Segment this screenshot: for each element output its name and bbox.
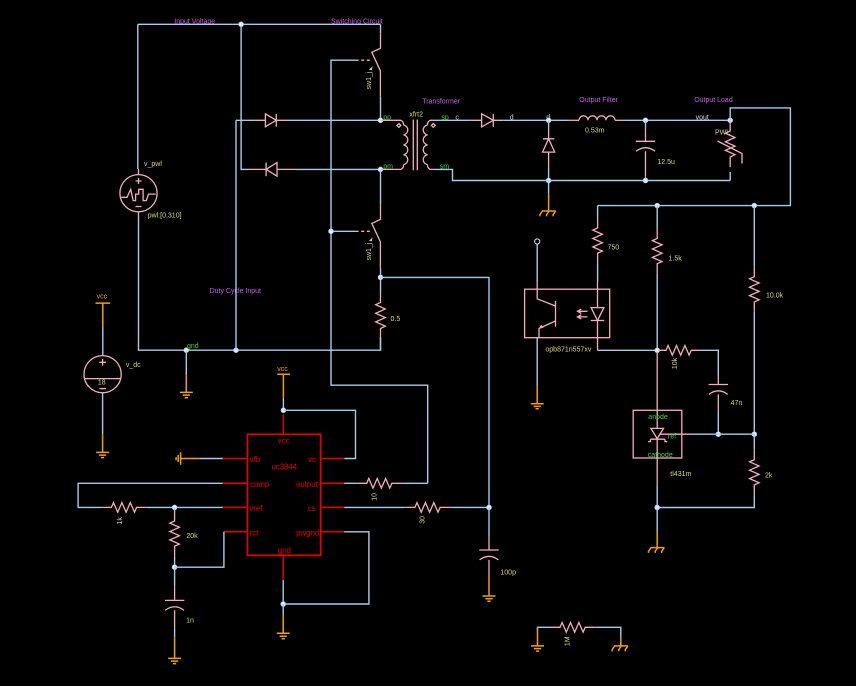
bottom snubber wire right xyxy=(595,627,621,636)
resistor R 0.5 current sense xyxy=(376,277,386,350)
label pp xyxy=(383,115,391,122)
label c xyxy=(455,115,459,122)
node pm junction xyxy=(378,167,383,172)
wire gnd pin to junction xyxy=(282,580,284,604)
svg-text:tl431m: tl431m xyxy=(670,471,691,478)
svg-text:47n: 47n xyxy=(731,400,743,407)
svg-text:cathode: cathode xyxy=(648,452,673,459)
vcc supply symbol at v_dc xyxy=(96,294,111,356)
svg-text:comp: comp xyxy=(250,480,270,489)
node junction sw2 control xyxy=(329,229,334,234)
optocoupler coupling arrows xyxy=(578,309,588,319)
wire top input rail xyxy=(138,23,381,25)
ground symbol snubber right (rake style) xyxy=(612,637,628,652)
comment: Duty Cycle Input title xyxy=(210,288,261,295)
transformer xfrt2 primary winding xyxy=(381,120,408,169)
resistor R 10 gate drive xyxy=(357,479,402,489)
svg-text:anode: anode xyxy=(648,414,668,421)
optocoupler opb871n557xv box xyxy=(525,289,610,338)
node junction freewheel anode on return rail xyxy=(546,178,551,183)
transformer core xyxy=(413,120,417,171)
svg-text:pwgnd: pwgnd xyxy=(296,528,319,537)
resistor R 1k comp xyxy=(101,503,146,513)
label 47n xyxy=(731,400,743,407)
label ref xyxy=(668,434,676,441)
vcc supply symbol at uc3844 xyxy=(277,366,290,410)
resistor R 2k xyxy=(657,434,759,507)
wire D2 left segment xyxy=(297,168,381,170)
label anode xyxy=(648,414,668,421)
ground symbol sideways at vfb xyxy=(176,452,223,465)
wire v_pwl minus lead to gnd rail xyxy=(139,218,381,351)
resistor R 30 cs filter xyxy=(405,503,450,513)
ground symbol tl431 (rake style) xyxy=(649,508,665,553)
label 750 xyxy=(608,244,620,251)
wire rct net xyxy=(175,532,224,567)
comment: Switching Circuit title xyxy=(331,19,383,26)
wire comp loop xyxy=(78,483,223,507)
switch SW1 top xyxy=(356,24,381,120)
comment: Transformer title xyxy=(422,99,461,106)
diode freewheel at node d xyxy=(543,120,555,180)
capacitor C 100p xyxy=(479,507,498,576)
node junction sw2 bottom / cs tap xyxy=(378,275,383,280)
svg-text:vcc: vcc xyxy=(278,436,290,445)
label sm xyxy=(440,164,450,171)
uc3844 pin stubs xyxy=(223,414,344,580)
svg-text:vfb: vfb xyxy=(250,455,261,464)
svg-text:1k: 1k xyxy=(117,517,124,525)
ground symbol secondary return (rake style) xyxy=(540,181,556,217)
optocoupler LED xyxy=(591,282,605,351)
node junction tl431 cathode xyxy=(655,505,660,510)
wire v+ drop to clamp diode D2 cathode xyxy=(241,24,247,169)
diode D1 clamp to pp xyxy=(255,114,286,127)
svg-text:sw1_j: sw1_j xyxy=(366,242,373,260)
svg-text:18: 18 xyxy=(98,380,106,387)
inductor L 0.53m xyxy=(569,116,625,121)
wire secondary minus rail xyxy=(434,169,731,180)
node junction 10.0k top xyxy=(752,203,757,208)
node junction rct node xyxy=(172,565,177,570)
label v_pwl xyxy=(144,161,162,168)
voltage source v_pwl xyxy=(120,169,157,218)
wire sp to output diode xyxy=(434,119,472,121)
resistor R 20k xyxy=(170,507,180,567)
bottom snubber wire left xyxy=(538,627,551,630)
label d at junction xyxy=(546,114,550,121)
svg-text:vcc: vcc xyxy=(277,366,288,373)
label 1.5k xyxy=(669,255,683,262)
label pm xyxy=(383,164,393,171)
transformer polarity dot primary xyxy=(397,124,401,128)
wire clamp diode D1 anode drop xyxy=(235,120,237,350)
svg-text:opb871n557xv: opb871n557xv xyxy=(545,346,591,353)
wire vout upper loop to feedback rail xyxy=(598,108,791,206)
svg-text:1.5k: 1.5k xyxy=(669,255,683,262)
diode D2 clamp pm to v+ xyxy=(247,163,297,177)
label 1k rotated xyxy=(117,517,124,525)
node junction cs 100p xyxy=(487,505,492,510)
svg-text:pwl:[0,310]: pwl:[0,310] xyxy=(148,213,182,220)
tl431 symbol xyxy=(648,351,690,486)
svg-text:v_pwl: v_pwl xyxy=(144,161,162,168)
ground symbol snubber left xyxy=(531,627,544,651)
svg-text:0.5: 0.5 xyxy=(391,316,401,323)
ground symbol uc3844 gnd xyxy=(277,604,290,639)
resistor R 10k to ref filter xyxy=(659,346,719,377)
label opb871n557xv xyxy=(545,346,591,353)
label 20k xyxy=(186,533,198,540)
label 1n xyxy=(186,618,194,625)
svg-text:100p: 100p xyxy=(500,570,516,577)
label 0.5 xyxy=(391,316,401,323)
svg-text:1M: 1M xyxy=(565,636,572,646)
label gnd net xyxy=(187,343,199,350)
svg-text:1n: 1n xyxy=(186,618,194,625)
wire gate resistor to control vertical xyxy=(402,482,428,484)
svg-text:uc3844: uc3844 xyxy=(272,463,298,472)
svg-text:cs: cs xyxy=(308,504,316,513)
label sw1_j rotated second xyxy=(366,238,373,261)
wire v_pwl plus lead xyxy=(137,24,139,169)
svg-text:750: 750 xyxy=(608,244,620,251)
svg-text:Output Filter: Output Filter xyxy=(579,97,618,104)
svg-text:vref: vref xyxy=(249,504,263,513)
capacitor C 12.5u xyxy=(636,120,655,180)
wire pwgnd loop xyxy=(283,532,369,604)
wire cs sense net xyxy=(381,277,490,507)
wire switch control net xyxy=(331,60,428,483)
svg-text:rct: rct xyxy=(250,528,259,537)
node junction gnd stub xyxy=(184,348,189,353)
node junction power ground xyxy=(281,602,286,607)
voltage source v_dc xyxy=(84,355,121,393)
wire inductor to cap node xyxy=(625,119,730,121)
svg-text:gnd: gnd xyxy=(187,343,199,350)
node junction cap bottom on rail xyxy=(643,178,648,183)
svg-text:2k: 2k xyxy=(765,473,773,480)
svg-text:vcc: vcc xyxy=(97,294,108,301)
label 10k rotated xyxy=(672,357,679,369)
wire D1 cathode to pp node xyxy=(286,119,380,121)
node junction on input rail xyxy=(239,22,244,27)
label 100p xyxy=(500,570,516,577)
wire LED cathode to fb node xyxy=(598,349,658,351)
resistor R 750 xyxy=(593,206,603,282)
wire diode to node d xyxy=(503,119,569,121)
label pwl:[0,310] xyxy=(148,213,182,220)
label xfrt2 xyxy=(409,112,423,119)
svg-text:gnd: gnd xyxy=(278,546,291,555)
svg-text:xfrt2: xfrt2 xyxy=(409,112,423,119)
svg-text:30: 30 xyxy=(419,516,426,524)
node junction vref divider xyxy=(172,505,177,510)
node junction filter cap top xyxy=(643,118,648,123)
label sw1_j rotated xyxy=(366,66,373,89)
svg-text:Output Load: Output Load xyxy=(694,97,733,104)
switch SW2 bottom xyxy=(356,169,381,277)
diode D output rectifier xyxy=(472,114,504,127)
wire switch2 control tap xyxy=(331,230,356,232)
wire 1k to vref pin xyxy=(147,506,223,508)
wire ref line xyxy=(690,433,754,435)
ground symbol opto emitter xyxy=(531,338,544,409)
tl431 box xyxy=(633,410,682,458)
ground symbol v_dc xyxy=(96,434,109,457)
node junction 1.5k top xyxy=(655,203,660,208)
svg-text:PWL: PWL xyxy=(715,130,730,137)
optocoupler phototransistor xyxy=(537,289,555,338)
label 10 rotated xyxy=(371,493,378,501)
wire v_dc minus to ground xyxy=(102,393,104,434)
comment: Output Load title xyxy=(694,97,733,104)
svg-text:sw1_j: sw1_j xyxy=(366,71,373,89)
label d xyxy=(510,114,514,121)
svg-text:output: output xyxy=(296,480,319,489)
label tl431m xyxy=(670,471,691,478)
label 30 rotated xyxy=(419,516,426,524)
node junction tl431 anode node xyxy=(655,348,660,353)
ground symbol on gnd rail xyxy=(180,350,193,398)
resistor R 10.0k xyxy=(750,206,760,435)
label 0.53m xyxy=(585,128,605,135)
svg-text:vc: vc xyxy=(308,455,316,464)
node junction vout xyxy=(728,118,733,123)
wire tl431 cathode to gnd node xyxy=(656,486,658,508)
resistor R 1M snubber xyxy=(550,623,595,633)
wire output pin to gate resistor xyxy=(344,482,357,484)
node pp junction xyxy=(378,118,383,123)
svg-text:10k: 10k xyxy=(672,357,679,369)
wire cs resistor to sense node xyxy=(450,506,489,508)
label 2k xyxy=(765,473,773,480)
label sp xyxy=(441,115,449,122)
svg-text:ref: ref xyxy=(668,434,676,441)
label PWL xyxy=(715,130,730,137)
capacitor C 1n xyxy=(165,567,184,638)
ground symbol 100p xyxy=(483,576,496,601)
transformer secondary winding xyxy=(423,120,433,169)
comment: Input Voltage title xyxy=(174,19,215,26)
node junction clamp return xyxy=(234,348,239,353)
label 1M rotated xyxy=(565,636,572,646)
resistor R 1.5k xyxy=(652,206,662,351)
label 18 xyxy=(98,380,106,387)
svg-text:d: d xyxy=(510,114,514,121)
svg-text:v_dc: v_dc xyxy=(126,362,141,369)
node junction 47n bottom on ref line xyxy=(716,432,721,437)
ground symbol 1n xyxy=(168,638,181,664)
wire vcc to vc loop xyxy=(283,410,355,458)
uc3844 box xyxy=(248,434,321,555)
opto collector float pin circle xyxy=(535,239,540,289)
label v_dc xyxy=(126,362,141,369)
label cathode xyxy=(648,452,673,459)
node junction vcc xyxy=(281,408,286,413)
capacitor C 47n xyxy=(709,377,728,435)
svg-text:Transformer: Transformer xyxy=(422,99,461,106)
uc3844 pin labels xyxy=(249,436,319,555)
comment: Output Filter title xyxy=(579,97,618,104)
svg-text:0.53m: 0.53m xyxy=(585,128,605,135)
label 12.5u xyxy=(657,159,675,166)
wire cs pin to filter resistor xyxy=(344,506,405,508)
svg-text:10.0k: 10.0k xyxy=(766,293,784,300)
wire D1 anode segment xyxy=(236,119,255,121)
label 10.0k xyxy=(766,293,784,300)
svg-text:12.5u: 12.5u xyxy=(657,159,675,166)
svg-text:10: 10 xyxy=(371,493,378,501)
transformer polarity dot secondary xyxy=(431,124,435,128)
node junction 10.0k bottom 2k top xyxy=(752,432,757,437)
svg-text:vout: vout xyxy=(696,114,709,121)
svg-text:20k: 20k xyxy=(186,533,198,540)
label vout xyxy=(696,114,709,121)
node junction d xyxy=(546,118,551,123)
output load PWL resistor xyxy=(718,120,743,180)
